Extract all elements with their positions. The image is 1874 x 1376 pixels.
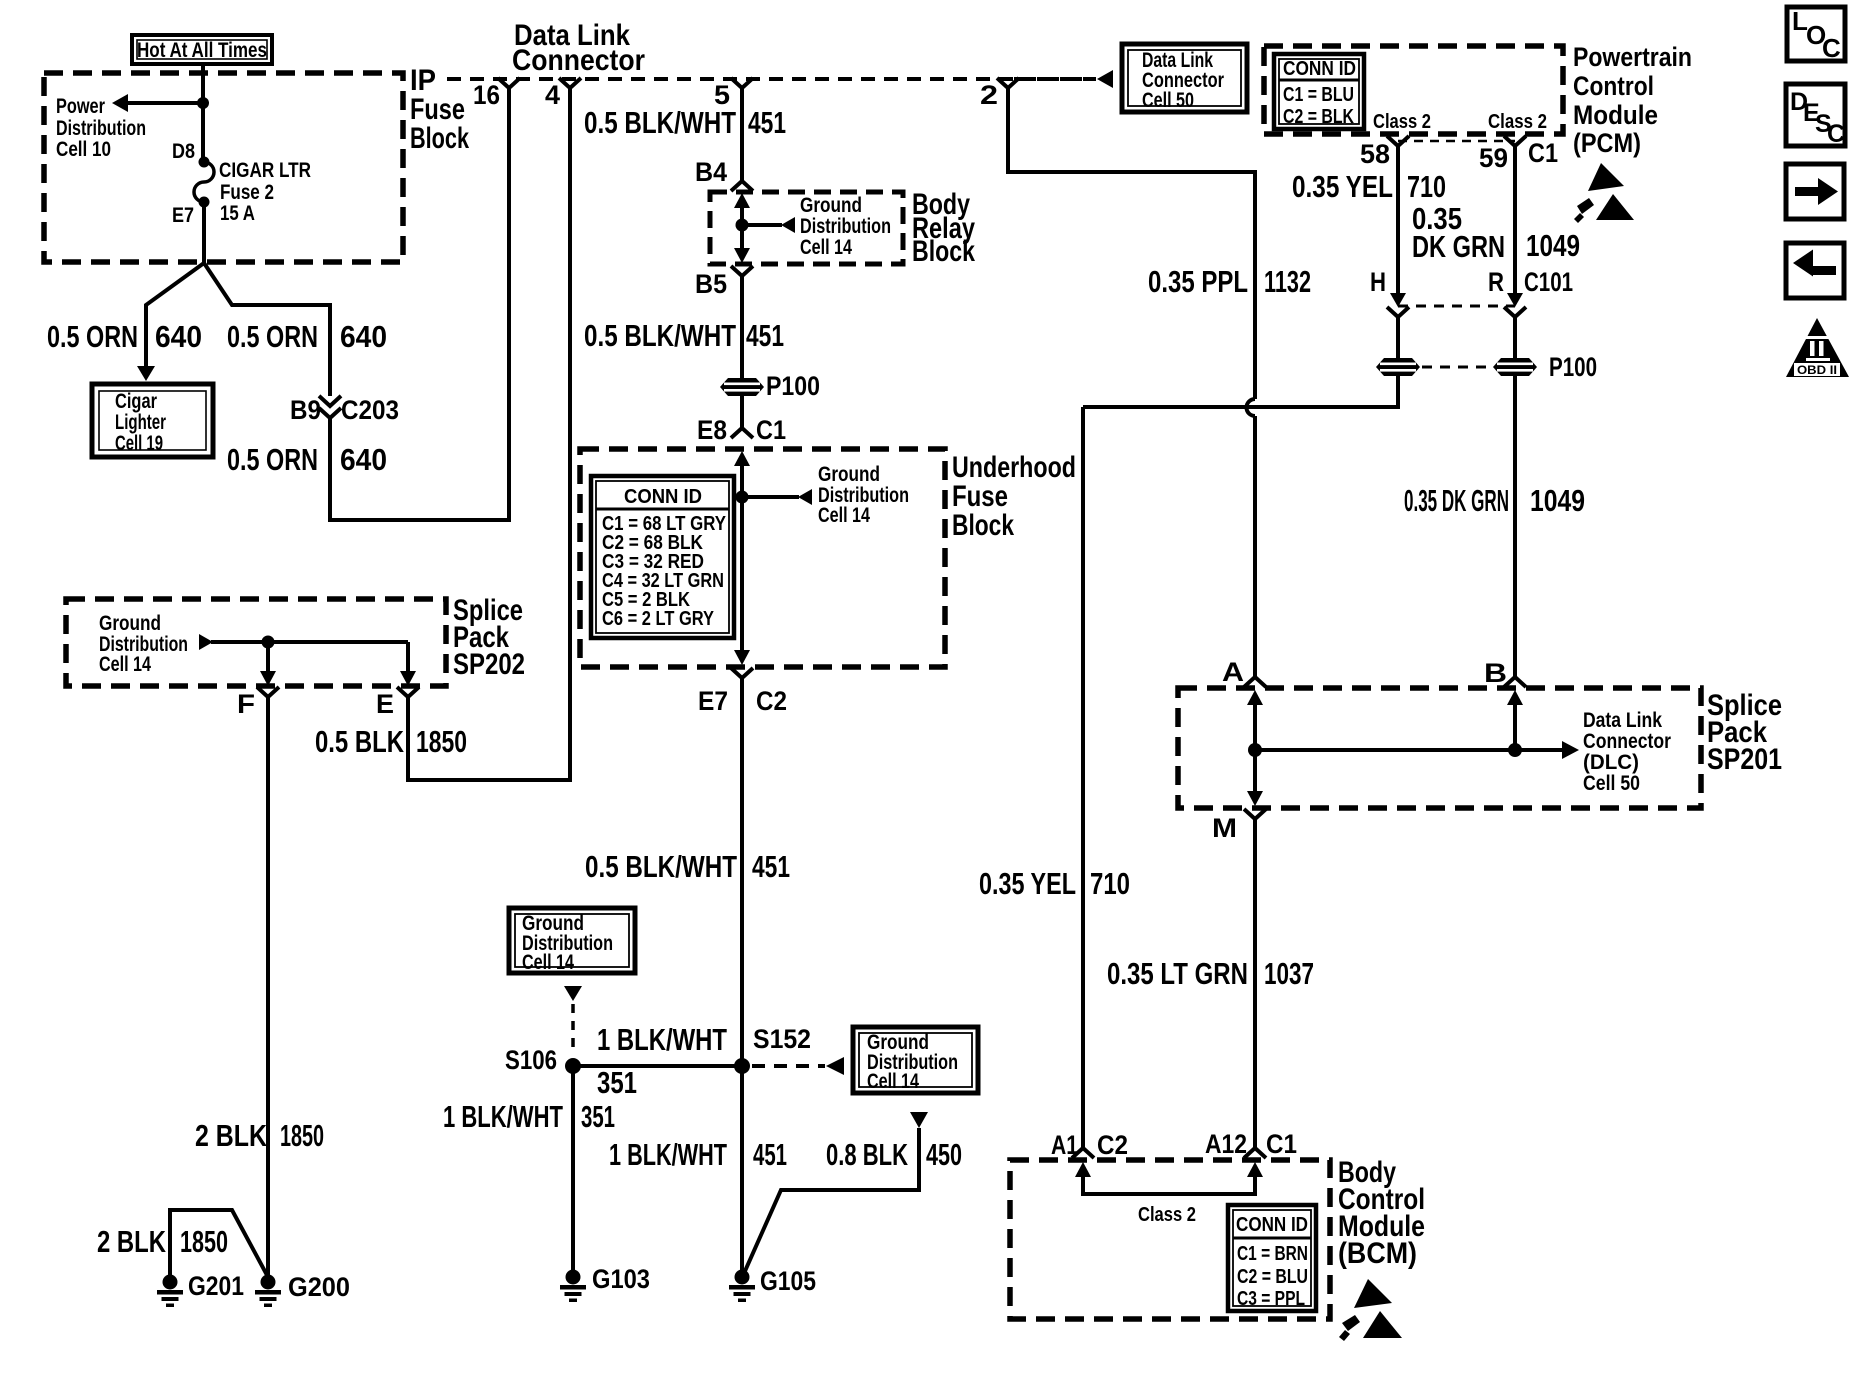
svg-text:Power: Power [56,95,105,118]
pin E8/C1 fork [731,424,753,438]
svg-text:S152: S152 [753,1024,811,1054]
arrow: R into C101 (down) [1507,293,1523,307]
svg-text:(BCM): (BCM) [1338,1237,1417,1270]
svg-text:S106: S106 [505,1045,557,1075]
grommet P100 (pin 5 wire) [720,378,764,396]
wire: branch to G201 [170,1210,268,1277]
svg-text:Cigar: Cigar [115,390,157,413]
node S152 [734,1058,750,1074]
svg-text:H: H [1370,267,1386,297]
connector C101 dashed line [1398,305,1515,308]
arrow: Ground Distribution ref (BRB) [781,217,795,233]
pin E fork [397,687,419,707]
arrow: to Power Distribution (left) [112,94,128,112]
wire: B drop to bus [1513,703,1517,750]
fuse F2 CIGAR LTR 15A [194,157,214,208]
svg-text:C203: C203 [341,395,399,425]
wire: M down to BCM A12 [1253,830,1257,1143]
svg-text:0.5 BLK: 0.5 BLK [315,724,404,759]
pin M fork [1244,809,1266,830]
wire: branch to Power Distribution Cell 10 [126,101,203,105]
title: Splice Pack SP201 [1707,689,1782,776]
svg-text:Block: Block [952,509,1014,542]
label: 0.35 YEL 710 (PCM) [1292,169,1446,204]
svg-text:Block: Block [410,122,469,155]
svg-text:0.5 BLK/WHT: 0.5 BLK/WHT [584,318,736,353]
svg-text:0.8 BLK: 0.8 BLK [826,1137,908,1172]
label: 1 BLK/WHT 351 (S106-S152) [597,1022,727,1100]
svg-text:1850: 1850 [180,1224,228,1259]
svg-text:P100: P100 [766,371,820,401]
svg-text:C2 = BLK: C2 = BLK [1283,106,1354,128]
pin B4 fork [731,168,753,191]
grommet P100 (H wire) [1376,358,1420,376]
Underhood Fuse Block dashed box [580,449,945,667]
label: 0.5 ORN 640 (left branch) [47,319,202,354]
svg-text:Cell 19: Cell 19 [115,432,163,455]
svg-text:Control: Control [1573,71,1654,101]
pin 2 fork [997,78,1019,96]
svg-text:Connector: Connector [512,44,645,77]
connector C203 chevron (wire side) [319,396,341,406]
wire: E up to DLC pin 4 [408,95,570,780]
wire: SP201 bus drop to M [1253,750,1257,792]
arrow: into Underhood Fuse Block (up) [734,451,750,466]
wire: dashed from S152 to Ground Distribution ref [752,1064,825,1068]
pin A fork (SP201) [1244,670,1266,687]
label: 0.35 PPL 1132 [1148,264,1311,299]
arrow: Ground Distribution ref (SP202, right-pointing) [199,634,213,650]
svg-text:1 BLK/WHT: 1 BLK/WHT [597,1022,727,1057]
icon: LOC box [1787,6,1845,63]
svg-text:1 BLK/WHT: 1 BLK/WHT [609,1137,727,1172]
svg-text:C1: C1 [756,415,786,445]
pin E7/C2 fork [731,668,753,692]
svg-text:Ground: Ground [818,463,880,486]
arrow: Data Link Connector Cell 50 ref (left) [1097,70,1113,88]
Body Relay Block dashed box [710,192,903,264]
svg-text:G105: G105 [760,1266,816,1296]
arrow: A12 into BCM (up) [1247,1162,1263,1177]
label: Ground Distribution Cell 14 (BRB) [800,194,891,259]
wire: pin 58 down to C101 [1396,154,1400,296]
arrow: Ground Distribution ref (S152) [826,1057,844,1075]
dashed link between PCM pins [1398,140,1515,143]
arrow: from right Ground Distribution box (down) [910,1112,928,1128]
pin A12 fork (BCM) [1244,1143,1266,1158]
box: Hot At All Times label [132,35,272,64]
wire: SP202 drop to E [406,642,410,672]
svg-text:351: 351 [581,1099,615,1134]
wire: F down to G200 [266,707,270,1275]
pin 59 fork [1504,136,1526,154]
arrow: DLC Cell 50 ref (right) [1562,741,1579,759]
svg-text:E7: E7 [698,686,728,716]
svg-text:58: 58 [1360,139,1390,169]
IP Fuse Block dashed box [44,73,403,262]
svg-text:640: 640 [155,319,202,354]
arrow: H into C101 (down) [1390,293,1406,307]
title: Powertrain Control Module (PCM) [1573,42,1692,158]
svg-text:C1 = BRN: C1 = BRN [1237,1243,1308,1265]
ESD symbol (PCM) [1574,163,1634,223]
svg-text:451: 451 [752,849,790,884]
wire: dashed to S106 [571,1004,575,1054]
svg-text:B: B [1484,658,1507,688]
svg-text:1049: 1049 [1530,483,1585,518]
label: 0.35 YEL 710 (riser) [979,866,1130,901]
wire: fork left branch to cigar lighter [146,263,204,368]
svg-text:C2: C2 [1097,1130,1128,1160]
label: IP Fuse Block [410,64,469,155]
svg-text:Class 2: Class 2 [1138,1204,1196,1226]
svg-text:0.5 ORN: 0.5 ORN [47,319,138,354]
label: 0.5 ORN 640 (right branch) [227,319,387,354]
title: Splice Pack SP202 [453,594,525,681]
box: Data Link Connector Cell 50 [1122,44,1247,112]
wire: pin 59 down to C101 [1513,154,1517,296]
wire: BRB tap to Ground Distribution [742,223,782,227]
arrow: into Body Relay Block (up) [734,193,750,208]
label: Power Distribution Cell 10 [56,95,146,161]
svg-text:0.35 YEL: 0.35 YEL [979,866,1076,901]
svg-text:15 A: 15 A [220,202,255,225]
svg-text:0.5 ORN: 0.5 ORN [227,319,318,354]
arrow: M out of SP201 (down) [1247,791,1263,806]
svg-text:Ground: Ground [800,194,862,217]
label: 1 BLK/WHT 351 (S106 drop) [443,1099,615,1134]
svg-text:Block: Block [912,235,975,268]
node: junction to Power Distribution [197,97,209,109]
svg-text:G103: G103 [592,1264,650,1294]
arrow: from Ground Distribution box (down) [564,986,582,1001]
svg-text:SP202: SP202 [453,648,525,681]
label: Ground Distribution Cell 14 (SP202) [99,612,188,676]
wire: H P100 down, left to YEL riser [1083,376,1398,407]
wire: PPL riser to SP201 A [1253,416,1257,670]
svg-text:CONN ID: CONN ID [1236,1214,1308,1236]
svg-text:1850: 1850 [280,1118,324,1153]
svg-text:Cell 14: Cell 14 [99,653,151,676]
label: 0.5 BLK 1850 [315,724,467,759]
pin 58 fork [1387,136,1409,154]
CONN ID table (BCM) [1228,1205,1316,1311]
title: Body Control Module (BCM) [1338,1156,1425,1270]
wire: inside Underhood block [740,464,744,650]
Body Control Module dashed box [1010,1160,1330,1319]
node: SP202 F tap [262,636,275,649]
icon: left arrow box [1786,243,1844,298]
svg-text:C1: C1 [1528,138,1558,168]
svg-text:Cell 50: Cell 50 [1142,89,1194,112]
svg-text:C1 = BLU: C1 = BLU [1283,84,1354,106]
svg-text:R: R [1488,267,1504,297]
wire: BCM internal link [1083,1175,1255,1194]
svg-text:CONN ID: CONN ID [624,486,702,508]
svg-text:710: 710 [1090,866,1130,901]
wire: S106 down to G103 [571,1066,575,1271]
wire: SP202 internal bus [211,640,408,644]
svg-text:710: 710 [1407,169,1446,204]
svg-text:1132: 1132 [1264,264,1311,299]
svg-text:A: A [1222,657,1244,687]
svg-text:E7: E7 [172,204,194,227]
title: Underhood Fuse Block [952,451,1076,542]
ground G105 [729,1270,755,1303]
svg-text:1 BLK/WHT: 1 BLK/WHT [443,1099,563,1134]
wire: crossover hump on PPL riser [1247,399,1256,416]
svg-text:E8: E8 [697,415,727,445]
label: 0.35 DK GRN 1049 (lower) [1404,483,1585,518]
wire: E7 down to S152 [740,692,744,1066]
arrow: B into SP201 (up) [1507,690,1523,705]
svg-text:0.5 ORN: 0.5 ORN [227,442,318,477]
svg-text:F: F [237,689,255,719]
svg-text:640: 640 [340,442,387,477]
svg-text:Hot At All Times: Hot At All Times [137,39,267,62]
label: 2 BLK 1850 (G201 branch) [97,1224,228,1259]
svg-text:DK GRN: DK GRN [1412,229,1505,264]
svg-text:(PCM): (PCM) [1573,128,1641,158]
svg-text:2: 2 [980,80,998,110]
svg-text:Data Link: Data Link [1583,709,1662,732]
Splice Pack SP202 dashed box [66,599,446,686]
wire: battery feed from Hot At All Times down to fuse [201,64,205,160]
icon: OBD II triangle [1786,318,1849,377]
svg-text:SP201: SP201 [1707,743,1782,776]
svg-text:451: 451 [748,105,786,140]
arrow: SP202 E exit (down) [400,671,416,686]
svg-text:Cell 14: Cell 14 [867,1070,919,1093]
wire: inside Body Relay Block [740,206,744,250]
arrow: out of Body Relay Block (down) [734,248,750,263]
svg-text:Powertrain: Powertrain [1573,42,1692,72]
grommet P100 (R wire) [1493,358,1537,376]
svg-text:C2 = BLU: C2 = BLU [1237,1266,1308,1288]
wire: A drop to bus [1253,703,1257,750]
svg-text:59: 59 [1479,143,1508,173]
Splice Pack SP201 dashed box [1178,688,1701,808]
title: Body Relay Block [912,188,975,268]
wire: DLC pin 2 to PPL riser [1008,95,1255,399]
svg-text:1037: 1037 [1264,956,1314,991]
wire: YEL riser down to BCM A1 [1081,407,1085,1143]
svg-text:Class 2: Class 2 [1373,111,1431,133]
svg-text:Cell 14: Cell 14 [818,504,870,527]
wire: H to P100 [1396,324,1400,360]
wire: S106 to S152 [573,1064,742,1068]
svg-text:2 BLK: 2 BLK [97,1224,166,1259]
svg-text:4: 4 [545,80,560,110]
svg-text:351: 351 [597,1065,637,1100]
label: 0.5 ORN 640 (below C203) [227,442,387,477]
svg-text:D8: D8 [172,140,195,163]
svg-text:Distribution: Distribution [800,215,891,238]
svg-text:Cell 14: Cell 14 [800,236,852,259]
icon: DESC box [1786,84,1845,148]
arrow: A into SP201 (up) [1247,690,1263,705]
svg-text:0.35 LT GRN: 0.35 LT GRN [1107,956,1248,991]
svg-text:CIGAR LTR: CIGAR LTR [219,159,311,182]
svg-text:CONN ID: CONN ID [1283,58,1356,80]
wire: 0.8 BLK 450 to G105 [745,1128,919,1271]
svg-text:Cell 10: Cell 10 [56,138,111,161]
title: Data Link Connector [512,19,645,77]
Data Link Connector dashed outline [447,77,1096,81]
label: 0.5 BLK/WHT 451 (upper) [584,105,786,140]
svg-text:G200: G200 [288,1272,350,1302]
node: SP201 bus A [1248,743,1262,757]
svg-text:C6 = 2 LT GRY: C6 = 2 LT GRY [602,608,715,630]
svg-text:0.35 PPL: 0.35 PPL [1148,264,1248,299]
svg-text:2 BLK: 2 BLK [195,1118,267,1153]
arrow: Ground Distribution ref (underhood) [798,489,812,505]
svg-text:(DLC): (DLC) [1583,751,1639,774]
arrow: down into Cigar Lighter box [137,366,155,381]
svg-text:C2: C2 [756,686,787,716]
label: 0.35 DK GRN 1049 (upper) [1412,201,1580,264]
svg-text:Cell 50: Cell 50 [1583,772,1640,795]
node: SP201 bus B [1508,743,1522,757]
svg-text:A12: A12 [1205,1129,1247,1159]
wire: tap to Ground Distribution ref [742,495,799,499]
svg-text:451: 451 [753,1137,787,1172]
label: 0.8 BLK 450 [826,1137,962,1172]
CONN ID table (underhood) [591,476,734,638]
box: Ground Distribution Cell 14 (above S106) [509,908,635,974]
node S106 [565,1058,581,1074]
svg-text:Distribution: Distribution [56,117,146,140]
pin A1 fork (BCM) [1072,1143,1094,1158]
svg-text:Cell 14: Cell 14 [522,951,574,974]
svg-text:1049: 1049 [1526,228,1580,263]
node: underhood ground tap [736,491,749,504]
svg-text:450: 450 [926,1137,962,1172]
icon: right arrow box [1786,164,1844,219]
wire: fork right branch toward C203 [204,263,330,396]
svg-text:C3 = PPL: C3 = PPL [1237,1288,1305,1310]
svg-text:A1: A1 [1051,1130,1078,1160]
wire: S152 down to G105 [740,1066,744,1271]
svg-text:640: 640 [340,319,387,354]
svg-text:M: M [1212,813,1237,843]
svg-text:B4: B4 [695,157,727,187]
svg-text:B9: B9 [290,395,321,425]
svg-text:G201: G201 [188,1271,244,1301]
label: Data Link Connector (DLC) Cell 50 [1583,709,1671,795]
box: Ground Distribution Cell 14 (right of S152) [853,1027,978,1093]
pin F fork [257,687,279,707]
wire: SP201 bus [1255,748,1562,752]
svg-text:0.35 YEL: 0.35 YEL [1292,169,1393,204]
label: 2 BLK 1850 (F wire) [195,1118,324,1153]
svg-text:1850: 1850 [416,724,467,759]
svg-text:Fuse 2: Fuse 2 [220,181,274,204]
label: Ground Distribution Cell 14 (underhood) [818,463,909,527]
label: 0.5 BLK/WHT 451 (mid) [584,318,784,353]
arrow: A1 into BCM (up) [1075,1162,1091,1177]
svg-text:C101: C101 [1524,267,1573,297]
svg-text:C1: C1 [1266,1129,1297,1159]
Powertrain Control Module dashed box [1264,46,1563,134]
pin 16 fork [498,78,520,96]
label: 1 BLK/WHT 451 [609,1137,787,1172]
ground G103 [560,1270,586,1303]
wire: ORN 640 from C203 down then right up to DLC pin 16 [330,95,509,520]
pin R fork (below C101) [1504,307,1526,324]
svg-text:E: E [376,689,394,719]
ground G201 [157,1275,183,1308]
dashed link between P100 grommets [1422,366,1491,369]
svg-text:451: 451 [746,318,784,353]
pin H fork (below C101) [1387,307,1409,324]
node: BRB ground tap [736,219,749,232]
wire: fuse output down to fork [202,202,206,265]
CONN ID table (PCM) [1274,54,1364,129]
label: 0.35 LT GRN 1037 [1107,956,1314,991]
wire: R to P100 [1513,324,1517,360]
pin 5 fork [731,78,753,96]
svg-text:C: C [1822,33,1841,63]
svg-text:Lighter: Lighter [115,411,166,434]
svg-text:0.5 BLK/WHT: 0.5 BLK/WHT [585,849,737,884]
label: 0.5 BLK/WHT 451 (lower) [585,849,790,884]
svg-text:0.35 DK GRN: 0.35 DK GRN [1404,483,1509,518]
wire: R P100 down to SP201 B [1513,376,1517,670]
pin 4 fork [559,78,581,96]
wire: P100 down to E8 [740,396,744,424]
svg-text:Connector: Connector [1583,730,1671,753]
svg-text:P100: P100 [1549,352,1597,382]
label: CIGAR LTR Fuse 2 15 A [219,159,311,225]
svg-text:B5: B5 [695,269,727,299]
box: Cigar Lighter Cell 19 [92,384,213,457]
svg-text:16: 16 [473,80,500,110]
wire: B5 down to P100 [740,290,744,381]
svg-text:Module: Module [1573,100,1658,130]
svg-text:C: C [1827,120,1845,148]
wire: dashed DLC tail to Cell 50 ref [1014,77,1096,81]
wire: DLC pin 5 down to B4 [740,95,744,168]
arrow: SP202 F exit (down) [260,671,276,686]
arrow: out of Underhood block (down) [734,650,750,665]
connector C203 fork [319,408,341,426]
ESD symbol (BCM) [1339,1279,1402,1341]
ground G200 [255,1275,281,1308]
pin B fork (SP201) [1504,670,1526,687]
svg-text:Class 2: Class 2 [1488,111,1547,133]
svg-text:Ground: Ground [99,612,161,635]
wire: SP202 drop to F [266,642,270,672]
pin B5 fork [731,266,753,290]
svg-text:0.5 BLK/WHT: 0.5 BLK/WHT [584,105,736,140]
svg-text:OBD II: OBD II [1797,365,1837,377]
